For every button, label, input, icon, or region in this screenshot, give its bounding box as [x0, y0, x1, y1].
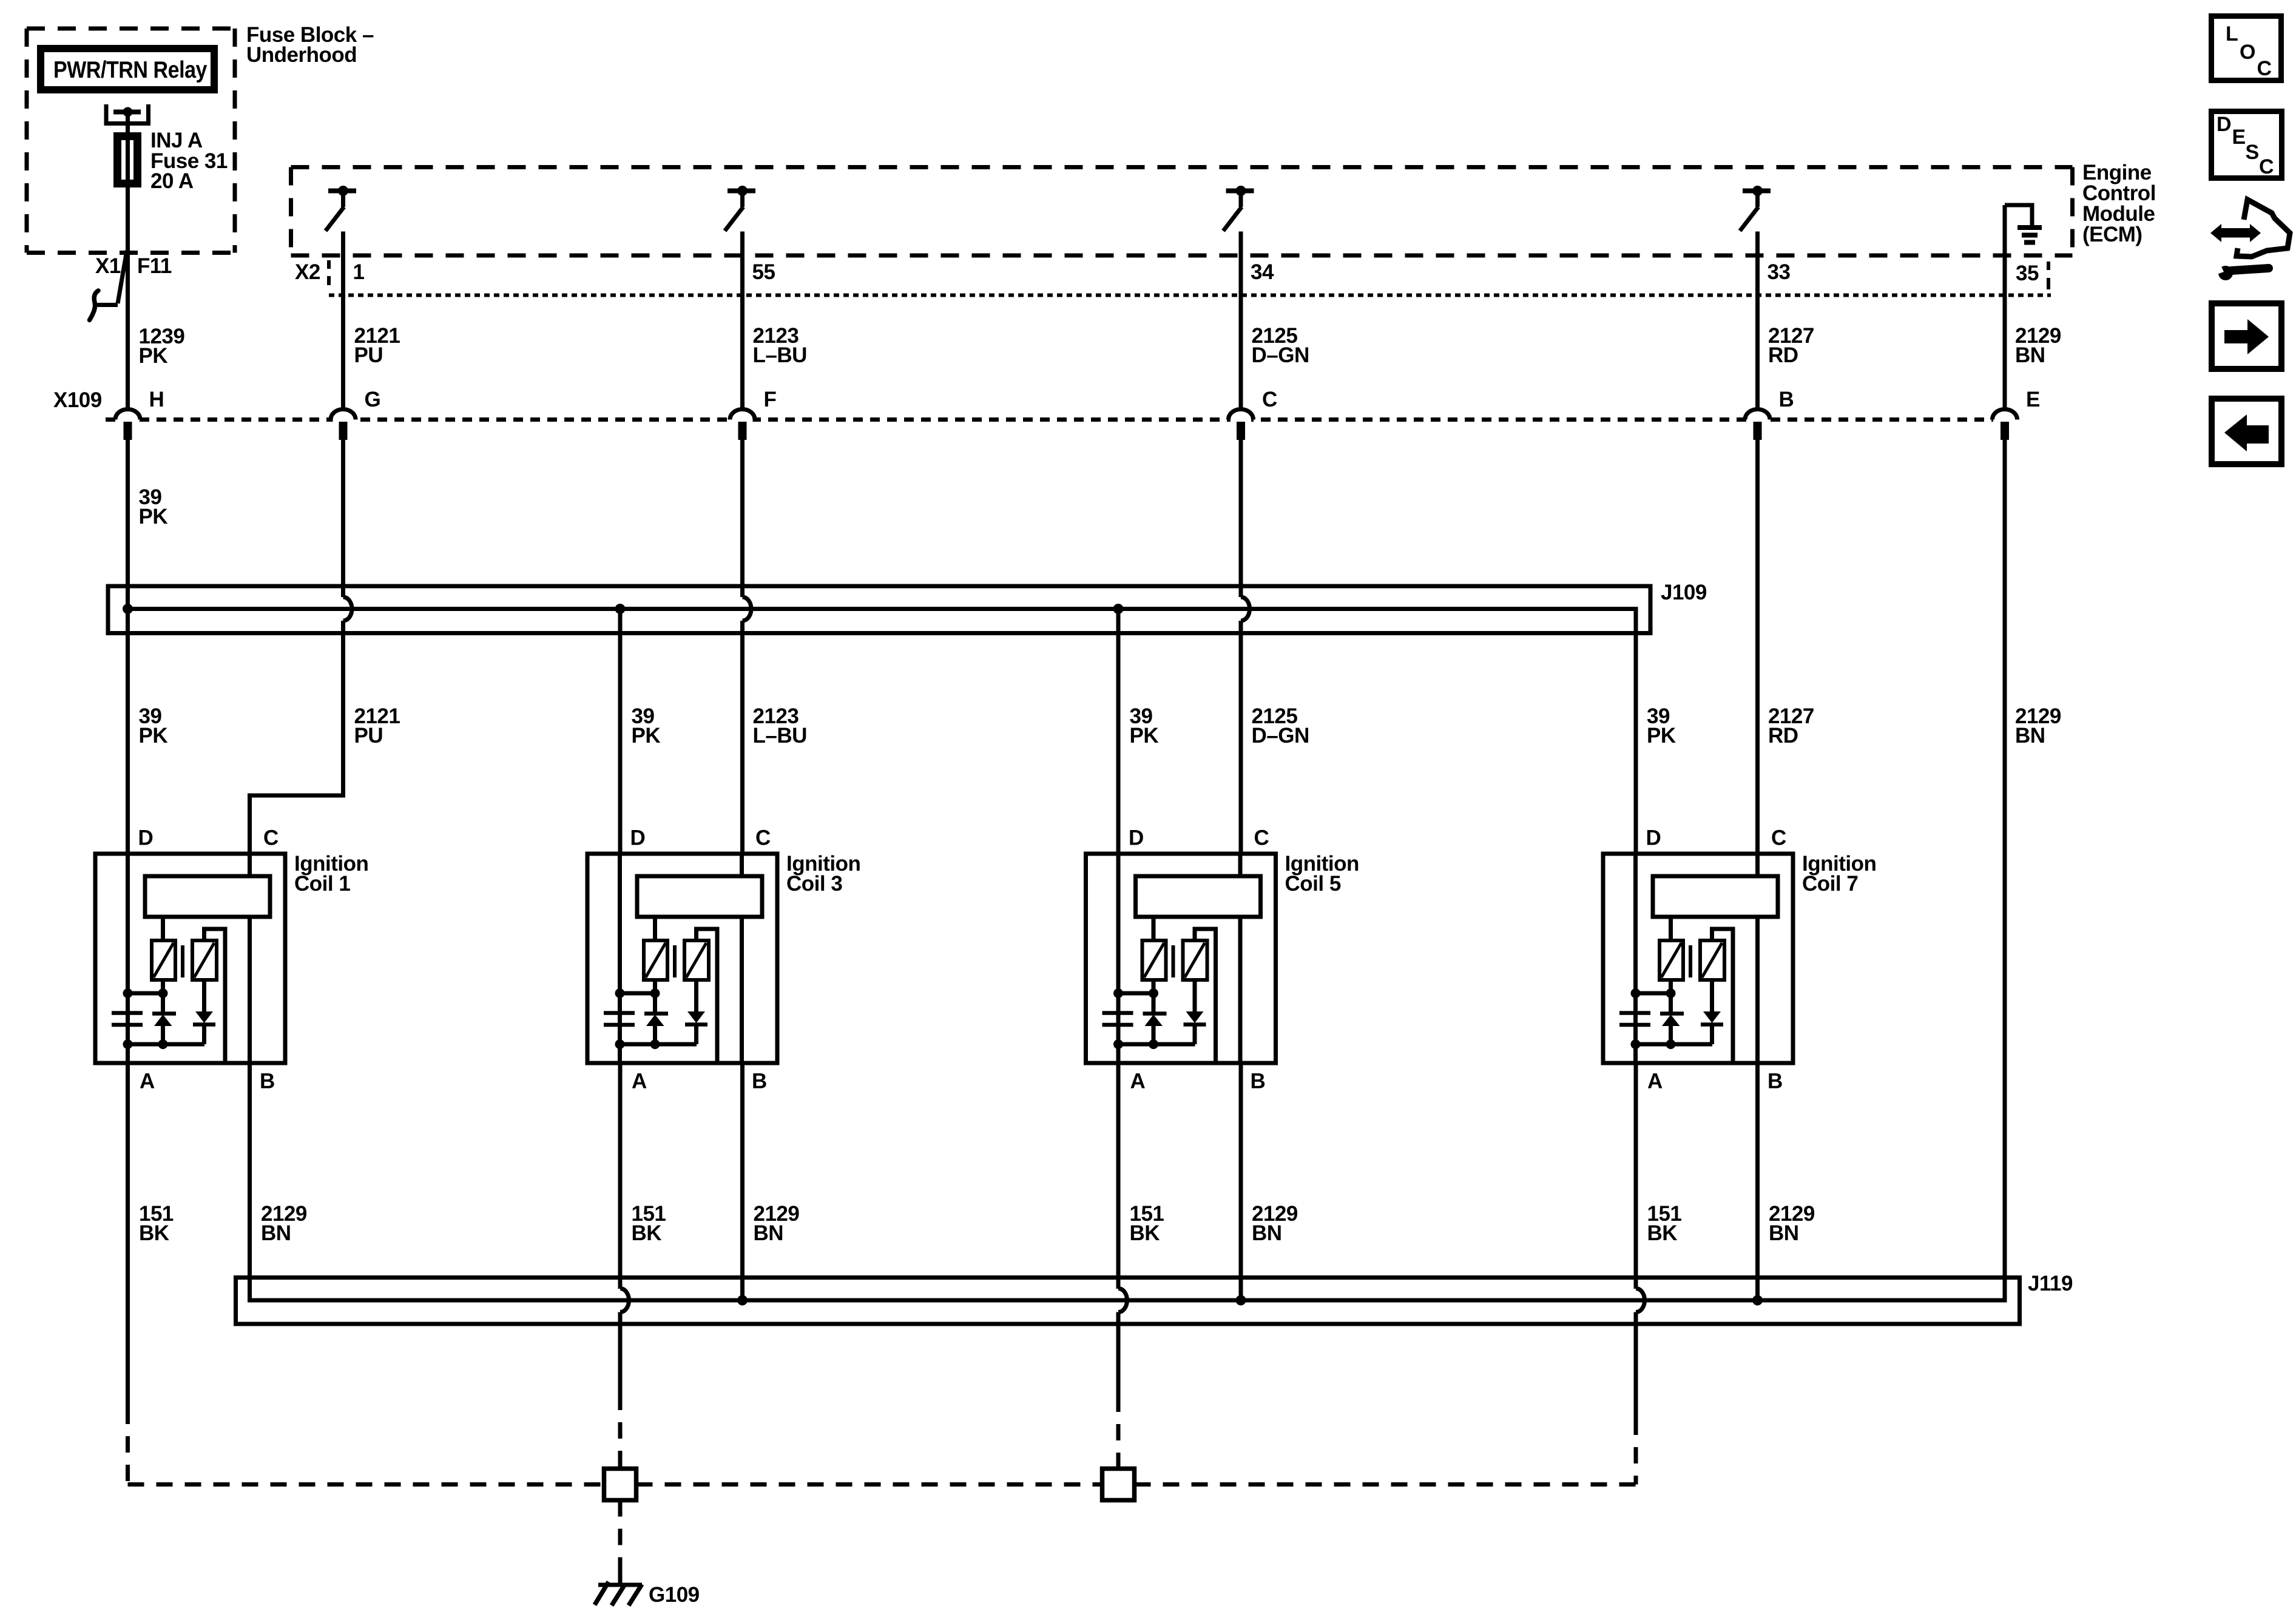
dashed lead from tie square down to G109 [618, 1501, 623, 1575]
wire 151 BK coil 5 below J119 (solid part) [1116, 1312, 1121, 1396]
wire 2123 L-BU below X109-F to hop at J109 [740, 440, 745, 597]
coil 3 upper junction row [620, 991, 655, 996]
X109 connector pin C [1231, 411, 1251, 422]
ignition coil 7 box [1603, 854, 1793, 1063]
coil 7 secondary lead to pin B [1755, 917, 1760, 1063]
svg-text:E: E [2026, 388, 2040, 411]
X2 connector separator dash left [327, 260, 331, 269]
coil 1 primary winding lead [161, 917, 165, 940]
coil 5 winding block [1136, 876, 1261, 917]
coil 5 primary winding lead [1152, 917, 1156, 940]
coil 3 resistor-left bottom lead [653, 980, 657, 995]
PWR/TRN Relay box [41, 49, 214, 90]
coil 1 pin C lead [248, 854, 252, 876]
coil 5 capacitor C [1116, 993, 1121, 1011]
wire 151 BK coil 1 pin A downward (solid part) [126, 1063, 130, 1408]
svg-text:G109: G109 [649, 1583, 700, 1607]
coil 3 winding block [637, 876, 762, 917]
svg-text:PK: PK [139, 344, 168, 368]
ground tie square splice (coil 5 branch) [1102, 1469, 1135, 1501]
coil 5 diode (down) [1193, 980, 1197, 1012]
svg-text:C: C [2259, 155, 2274, 178]
wire: relay terminal to fuse 31 and through fuse body [126, 114, 130, 189]
svg-text:55: 55 [752, 260, 775, 284]
coil 3 zener diode (up) [653, 993, 657, 1012]
svg-text:J109: J109 [1661, 581, 1707, 604]
junction dot J119 coil 7 ground [1752, 1295, 1763, 1306]
svg-text:D: D [1646, 826, 1661, 850]
ground distribution dashed line segment 2 [636, 1482, 1102, 1487]
svg-text:L–BU: L–BU [753, 343, 807, 367]
coil 3 winding resistor right [684, 940, 709, 980]
svg-text:Coil 7: Coil 7 [1802, 872, 1858, 896]
J109 inner splice wire with corner down to coil 7 feed [128, 609, 1636, 854]
svg-text:(ECM): (ECM) [2082, 223, 2142, 246]
ECM driver switch output pin 34 [1226, 189, 1254, 194]
svg-text:O: O [2240, 41, 2255, 64]
svg-text:X2: X2 [295, 260, 320, 284]
icon service info double arrow [2210, 224, 2261, 242]
ECM driver switch output pin 55 [728, 189, 755, 194]
icon DESC box [2212, 112, 2282, 178]
coil 3 lower junction row [620, 1042, 697, 1047]
junction dot J119 coil 3 ground [737, 1295, 748, 1306]
wire 151 BK coil 5 pin A to hop at J119 [1116, 1063, 1121, 1289]
svg-text:B: B [1251, 1070, 1266, 1093]
relay output terminal cup [106, 104, 149, 124]
wire 151 BK coil 7 pin A to hop at J119 [1634, 1063, 1638, 1289]
junction dot J119 coil 5 ground [1236, 1295, 1246, 1306]
coil 5 zener diode (up) [1152, 993, 1156, 1012]
ECM internal ground at pin 35 [2005, 205, 2032, 226]
svg-text:C: C [263, 826, 279, 850]
wire 2121 PU with jog left to ignition coil 1 pin C [250, 621, 343, 854]
coil 5 pin D internal line [1116, 854, 1121, 1063]
ignition coil 3 box [587, 854, 777, 1063]
wire 2129 BN coil 3 pin B down to J119 splice [740, 1063, 745, 1300]
wire 151 BK coil 3 pin A to hop at J119 [618, 1063, 623, 1289]
svg-text:D: D [138, 826, 154, 850]
svg-text:Coil 1: Coil 1 [294, 872, 350, 896]
coil 3 winding resistor left [644, 940, 667, 980]
coil 7 capacitor C [1633, 993, 1638, 1011]
X109 inline connector dashed line [106, 417, 1993, 422]
coil 1 diode (down) [202, 980, 206, 1012]
svg-text:Coil 3: Coil 3 [786, 872, 842, 896]
svg-text:20 A: 20 A [150, 169, 194, 193]
icon service info wrench [2218, 266, 2233, 280]
coil 3 right winding top hook [697, 929, 718, 1061]
wire 1239 PK from fuse F11 down to X109 pin H [126, 187, 130, 408]
wire hop of 2121 PU over J109 splice [343, 597, 353, 621]
svg-text:A: A [632, 1070, 647, 1093]
coil 1 winding resistor right [192, 940, 217, 980]
svg-text:PK: PK [139, 505, 168, 528]
svg-text:A: A [1647, 1070, 1663, 1093]
svg-text:PK: PK [139, 724, 168, 748]
wire 151 BK coil 7 dashed drop to ground line [1634, 1419, 1638, 1485]
svg-text:B: B [260, 1070, 275, 1093]
icon arrow previous [2224, 414, 2247, 451]
ECM driver switch output pin 33 [1743, 189, 1771, 194]
svg-text:X109: X109 [53, 388, 102, 412]
coil 7 diode (down) [1710, 980, 1714, 1012]
svg-text:D: D [1129, 826, 1144, 850]
coil 1 resistor-left bottom lead [161, 980, 165, 995]
ECM driver switch output pin 1 [328, 189, 356, 194]
coil 1 pin D internal line [126, 854, 130, 1063]
coil 5 resistor-left bottom lead [1152, 980, 1156, 995]
svg-text:BN: BN [754, 1221, 784, 1245]
svg-text:C: C [1262, 388, 1277, 411]
coil 1 right winding top hook [204, 929, 226, 1061]
wire 2129 BN coil 7 pin B down to J119 splice [1755, 1063, 1760, 1300]
splice bus J119 outline [236, 1278, 2020, 1325]
wire 2121 PU below X109-G to hop at J109 [341, 440, 345, 597]
wire 151 BK coil 5 dashed drop to ground tie [1116, 1396, 1121, 1469]
coil 7 winding block [1653, 876, 1778, 917]
icon LOC box [2212, 16, 2281, 81]
svg-text:C: C [1254, 826, 1269, 850]
coil 7 pin C lead [1755, 854, 1760, 876]
svg-text:L: L [2226, 22, 2238, 46]
coil 7 primary winding lead [1669, 917, 1673, 940]
coil 5 winding resistor right [1183, 940, 1207, 980]
svg-text:X1: X1 [95, 254, 121, 278]
ground distribution dashed line segment 3 [1135, 1482, 1636, 1487]
wire 39 PK from X109-H through J109 to ignition coil 1 pin D [126, 440, 130, 854]
coil 3 pin C lead [740, 854, 744, 876]
svg-text:B: B [752, 1070, 767, 1093]
ECM dashed box (Engine Control Module) [291, 165, 2073, 169]
wire 39 PK tap from J109 to ignition coil 5 pin D [1116, 609, 1121, 854]
svg-text:PK: PK [1130, 724, 1159, 748]
X109 connector pin G [333, 411, 354, 422]
svg-text:J119: J119 [2028, 1272, 2073, 1295]
icon arrow next [2224, 330, 2247, 343]
coil 5 pin C lead [1238, 854, 1243, 876]
svg-text:E: E [2232, 126, 2246, 149]
svg-text:D: D [2217, 113, 2231, 136]
svg-text:PK: PK [1647, 724, 1676, 748]
wire 2129 BN ECM pin 35 to X109 pin E [2003, 205, 2007, 408]
svg-text:D–GN: D–GN [1252, 724, 1309, 748]
fuse block underhood dashed box [27, 27, 235, 31]
svg-text:BN: BN [2015, 724, 2045, 748]
svg-text:D–GN: D–GN [1252, 343, 1309, 367]
wire 151 BK coil 3 dashed drop to ground tie [618, 1394, 623, 1469]
icon service info body outline [2237, 200, 2290, 257]
svg-text:BK: BK [632, 1221, 662, 1245]
svg-text:C: C [755, 826, 771, 850]
wire 2123 L-BU ECM pin 55 to X109 pin F [740, 232, 745, 408]
coil 7 right winding top hook [1712, 929, 1734, 1061]
coil 3 capacitor C [618, 993, 622, 1011]
wire 151 BK coil 3 below J119 (solid part) [618, 1312, 623, 1394]
svg-text:34: 34 [1251, 260, 1274, 284]
coil 5 winding resistor left [1143, 940, 1166, 980]
svg-text:F11: F11 [137, 254, 172, 278]
coil 1 lower junction row [128, 1042, 205, 1047]
coil 7 winding resistor right [1700, 940, 1724, 980]
coil 5 secondary lead to pin B [1238, 917, 1243, 1063]
junction dot J109 at 39 PK feed [123, 604, 133, 614]
icon arrow previous box [2212, 399, 2281, 464]
junction dot J109 coil 5 tap [1113, 604, 1124, 614]
ground distribution dashed line segment 1 [128, 1482, 604, 1487]
svg-text:PU: PU [354, 343, 383, 367]
coil 7 zener diode (up) [1669, 993, 1673, 1012]
coil 5 upper junction row [1118, 991, 1153, 996]
coil 5 lower junction row [1118, 1042, 1195, 1047]
wire 2127 RD from X109-B down to ignition coil 7 pin C [1755, 440, 1760, 854]
svg-text:L–BU: L–BU [753, 724, 807, 748]
X109 connector pin B [1747, 411, 1768, 422]
svg-text:BN: BN [2015, 343, 2045, 367]
wire hop of 2123 L-BU over J109 splice [743, 597, 752, 621]
coil 3 pin D internal line [618, 854, 622, 1063]
svg-text:F: F [764, 388, 777, 411]
svg-text:B: B [1779, 388, 1794, 411]
coil 5 right winding top hook [1195, 929, 1216, 1061]
fuse terminal clip symbol at F11 [118, 251, 127, 303]
coil 1 zener diode (up) [161, 993, 165, 1012]
coil 1 capacitor C [126, 993, 130, 1011]
svg-text:BK: BK [1647, 1221, 1678, 1245]
svg-text:D: D [630, 826, 646, 850]
coil 7 pin D internal line [1633, 854, 1638, 1063]
wire 2123 L-BU down to ignition coil 3 pin C [740, 621, 745, 854]
svg-text:C: C [2257, 57, 2272, 80]
svg-text:PK: PK [632, 724, 661, 748]
ignition coil 5 box [1086, 854, 1276, 1063]
wire 2129 BN coil 5 pin B down to J119 splice [1239, 1063, 1243, 1300]
wire 2127 RD ECM pin 33 to X109 pin B [1755, 232, 1760, 408]
coil 5 core bar [1172, 945, 1175, 977]
junction dot J109 coil 3 tap [615, 604, 626, 614]
svg-text:A: A [140, 1070, 155, 1093]
svg-text:RD: RD [1768, 724, 1798, 748]
wire 2125 D-GN down to ignition coil 5 pin C [1239, 621, 1243, 854]
coil 1 winding resistor left [152, 940, 175, 980]
relay terminal bar with junction dot [113, 110, 141, 115]
wire hop of coil 7 151 BK over J119 splice [1636, 1289, 1645, 1312]
solid stub above ground G109 [618, 1573, 623, 1585]
svg-text:A: A [1130, 1070, 1146, 1093]
svg-text:1: 1 [353, 260, 365, 284]
svg-text:PU: PU [354, 724, 383, 748]
svg-text:BK: BK [139, 1221, 169, 1245]
coil 7 upper junction row [1636, 991, 1671, 996]
coil 3 primary winding lead [653, 917, 657, 940]
splice bus J109 outline [108, 586, 1650, 633]
svg-text:RD: RD [1768, 343, 1798, 367]
ground symbol G109 (chassis ground) [598, 1583, 642, 1587]
wire 2125 D-GN below X109-C to hop at J109 [1239, 440, 1243, 597]
svg-text:H: H [149, 388, 164, 411]
wire 2121 PU ECM pin 1 to X109 pin G [341, 232, 345, 408]
X2 connector dotted boundary line [329, 294, 2051, 297]
svg-text:G: G [365, 388, 381, 411]
X109 connector pin H [118, 411, 138, 422]
coil 3 diode (down) [694, 980, 698, 1012]
ground tie square splice (coil 3 branch) [604, 1469, 636, 1501]
svg-text:BN: BN [1252, 1221, 1282, 1245]
svg-text:S: S [2246, 141, 2259, 164]
svg-text:PWR/TRN Relay: PWR/TRN Relay [53, 57, 208, 83]
X2 connector separator dash right (pin 35) [2047, 262, 2050, 270]
svg-text:BN: BN [1769, 1221, 1799, 1245]
wire hop of coil 5 151 BK over J119 splice [1118, 1289, 1127, 1312]
fuse F31 body inner [120, 138, 135, 181]
coil 1 winding block [145, 876, 270, 917]
coil 1 upper junction row [128, 991, 163, 996]
wire 151 BK coil 7 below J119 (solid part) [1634, 1312, 1638, 1419]
svg-text:BN: BN [261, 1221, 291, 1245]
ignition coil 1 box [95, 854, 285, 1063]
coil 3 core bar [673, 945, 677, 977]
icon arrow next box [2212, 303, 2281, 369]
coil 7 winding resistor left [1660, 940, 1683, 980]
coil 7 core bar [1689, 945, 1692, 977]
wire 2125 D-GN ECM pin 34 to X109 pin C [1239, 232, 1243, 408]
coil 1 core bar [181, 945, 184, 977]
wire 39 PK tap from J109 to ignition coil 3 pin D [618, 609, 623, 854]
svg-text:Underhood: Underhood [246, 43, 357, 67]
coil 1 secondary lead to pin B [248, 917, 252, 1063]
svg-text:Coil 5: Coil 5 [1285, 872, 1341, 896]
svg-text:C: C [1771, 826, 1786, 850]
X109 connector pin E [1994, 411, 2015, 422]
J119 inner splice wire: coil1 B up-corner, right to 2129 BN up-corner [250, 440, 2005, 1300]
coil 7 resistor-left bottom lead [1669, 980, 1673, 995]
svg-text:BK: BK [1130, 1221, 1160, 1245]
wire hop of coil 3 151 BK over J119 splice [620, 1289, 629, 1312]
coil 3 secondary lead to pin B [740, 917, 744, 1063]
svg-text:35: 35 [2016, 262, 2039, 285]
coil 7 lower junction row [1636, 1042, 1713, 1047]
svg-text:B: B [1768, 1070, 1783, 1093]
X109 connector pin F [732, 411, 753, 422]
wire hop of 2125 D-GN over J109 splice [1241, 597, 1250, 621]
wire 151 BK coil 1 dashed drop to ground line [126, 1408, 130, 1485]
fuse F31 body outer [116, 135, 140, 186]
svg-text:33: 33 [1768, 260, 1791, 284]
